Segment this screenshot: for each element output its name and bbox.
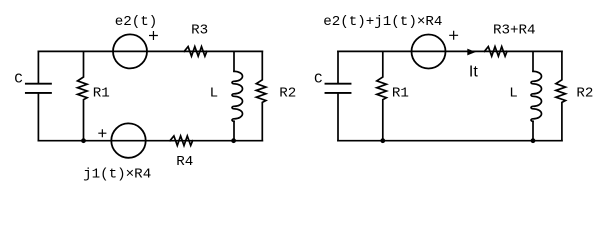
svg-text:R2: R2 (279, 86, 296, 102)
svg-text:e2(t)+j1(t)×R4: e2(t)+j1(t)×R4 (323, 14, 442, 30)
svg-text:It: It (469, 64, 478, 81)
svg-text:R3+R4: R3+R4 (493, 22, 536, 38)
svg-text:R1: R1 (93, 85, 110, 101)
svg-text:R4: R4 (176, 154, 193, 170)
svg-text:C: C (314, 72, 323, 88)
svg-text:j1(t)×R4: j1(t)×R4 (83, 167, 151, 183)
svg-text:R2: R2 (576, 86, 593, 102)
svg-text:R3: R3 (191, 22, 208, 38)
svg-text:C: C (14, 72, 23, 88)
svg-text:L: L (509, 86, 518, 102)
svg-text:R1: R1 (392, 85, 409, 101)
svg-text:L: L (210, 86, 219, 102)
svg-text:e2(t): e2(t) (115, 14, 158, 30)
